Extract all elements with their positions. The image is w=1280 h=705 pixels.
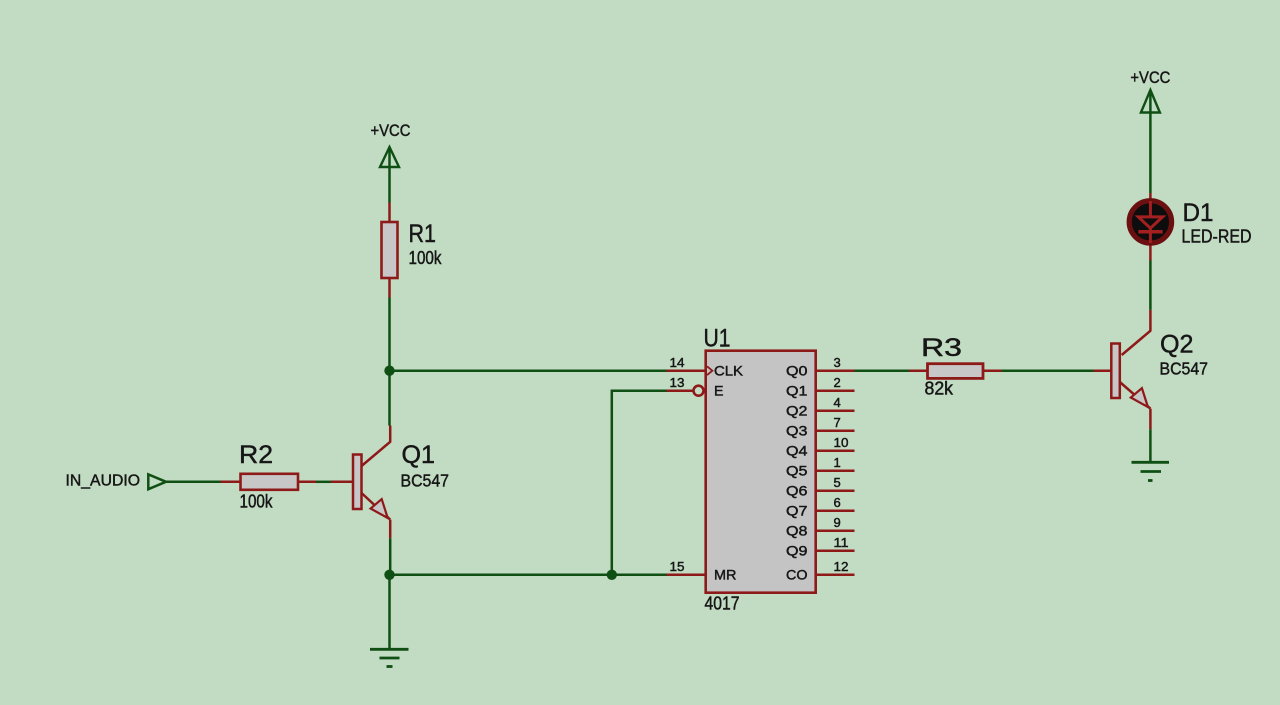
svg-text:82k: 82k xyxy=(925,379,954,399)
wire IN_AUDIO to R2 xyxy=(166,481,221,484)
svg-text:10: 10 xyxy=(834,435,849,450)
wire node B to node C xyxy=(390,574,612,577)
svg-text:11: 11 xyxy=(834,535,849,550)
wire junction A to CLK pin xyxy=(390,369,667,372)
wire Q2 emitter to ground xyxy=(1149,429,1152,461)
wire R3 to Q2 base xyxy=(1002,369,1094,372)
svg-text:Q9: Q9 xyxy=(786,543,808,559)
svg-text:Q0: Q0 xyxy=(786,363,808,379)
svg-text:4017: 4017 xyxy=(705,594,740,614)
svg-text:Q2: Q2 xyxy=(1160,331,1194,359)
ground (under Q2) xyxy=(1132,462,1170,480)
wire Q0 to R3 xyxy=(855,369,910,372)
svg-text:R2: R2 xyxy=(239,441,273,469)
svg-text:Q2: Q2 xyxy=(786,403,808,419)
svg-text:3: 3 xyxy=(834,355,841,370)
power +VCC (right) xyxy=(1130,68,1170,113)
pin 5 Q6 xyxy=(817,489,855,492)
wire R2 to Q1 base xyxy=(316,481,331,484)
svg-text:15: 15 xyxy=(670,559,685,574)
svg-text:Q5: Q5 xyxy=(786,463,808,479)
svg-text:1: 1 xyxy=(834,455,841,470)
svg-text:E: E xyxy=(714,382,724,398)
svg-text:100k: 100k xyxy=(240,492,274,512)
LED D1 xyxy=(1129,193,1251,261)
svg-text:6: 6 xyxy=(834,495,841,510)
pin 6 Q7 xyxy=(817,509,855,512)
wire node C up and right to E pin xyxy=(612,391,667,575)
svg-text:Q8: Q8 xyxy=(786,523,808,539)
pin 11 Q9 xyxy=(817,549,855,552)
IC U1 4017 xyxy=(667,324,855,613)
svg-text:Q4: Q4 xyxy=(786,443,808,459)
svg-text:7: 7 xyxy=(834,415,841,430)
Q2 base pin xyxy=(1094,369,1112,372)
svg-text:IN_AUDIO: IN_AUDIO xyxy=(66,473,141,490)
pin 10 Q4 xyxy=(817,449,855,452)
svg-text:R3: R3 xyxy=(921,334,962,362)
svg-text:LED-RED: LED-RED xyxy=(1182,227,1252,247)
svg-text:Q1: Q1 xyxy=(786,383,808,399)
svg-text:U1: U1 xyxy=(704,324,731,352)
svg-text:2: 2 xyxy=(834,375,841,390)
pin 7 Q3 xyxy=(817,429,855,432)
pin 1 Q5 xyxy=(817,469,855,472)
resistor R2 xyxy=(221,441,317,512)
resistor R1 xyxy=(382,203,443,298)
power +VCC (left) xyxy=(371,121,411,203)
wire Q2 collector up to LED xyxy=(1149,261,1152,310)
terminal IN_AUDIO xyxy=(66,473,167,490)
node A junction dot xyxy=(384,366,394,376)
svg-text:CLK: CLK xyxy=(714,363,744,379)
pin 3 Q0 xyxy=(817,369,855,372)
svg-text:14: 14 xyxy=(670,355,685,370)
svg-text:12: 12 xyxy=(834,559,849,574)
svg-text:MR: MR xyxy=(714,567,737,583)
wire R1 bottom to junction A xyxy=(388,298,391,371)
wire LED top to +VCC xyxy=(1149,91,1152,194)
wire node C to MR pin xyxy=(612,574,667,577)
svg-text:R1: R1 xyxy=(409,220,437,248)
svg-text:Q1: Q1 xyxy=(402,441,436,469)
svg-text:Q7: Q7 xyxy=(786,503,808,519)
svg-text:+VCC: +VCC xyxy=(1130,68,1170,87)
svg-text:BC547: BC547 xyxy=(1160,359,1209,379)
svg-text:4: 4 xyxy=(834,395,841,410)
transistor Q2 xyxy=(1111,310,1208,429)
node C junction dot xyxy=(607,570,617,580)
pin 15 MR xyxy=(667,574,705,577)
svg-text:9: 9 xyxy=(834,515,841,530)
wire Q1 emitter down xyxy=(389,538,392,575)
svg-text:D1: D1 xyxy=(1183,199,1214,227)
pin 4 Q2 xyxy=(817,409,855,412)
svg-text:BC547: BC547 xyxy=(401,471,450,491)
pin 14 CLK xyxy=(667,369,705,372)
Q1 base pin xyxy=(331,481,353,484)
svg-text:Q6: Q6 xyxy=(786,483,808,499)
resistor R3 xyxy=(909,334,1002,399)
svg-text:13: 13 xyxy=(670,375,685,390)
svg-text:100k: 100k xyxy=(409,248,443,268)
pin 12 CO xyxy=(817,574,855,577)
svg-text:Q3: Q3 xyxy=(786,423,808,439)
wire junction A down to Q1 collector xyxy=(388,371,391,426)
ground (under Q1) xyxy=(370,575,409,667)
pin 9 Q8 xyxy=(817,529,855,532)
svg-text:CO: CO xyxy=(786,567,808,583)
pin 13 E xyxy=(667,389,694,392)
svg-text:+VCC: +VCC xyxy=(371,121,411,140)
node B junction dot xyxy=(384,570,394,580)
svg-text:5: 5 xyxy=(834,475,841,490)
transistor Q1 xyxy=(353,426,449,539)
pin 2 Q1 xyxy=(817,389,855,392)
